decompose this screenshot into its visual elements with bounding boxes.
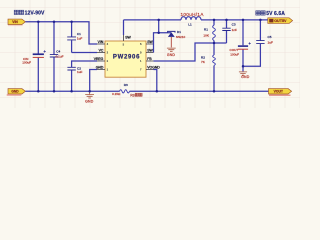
wire C4 column [53,22,55,92]
svg-text:100uH/1A: 100uH/1A [181,12,205,17]
resistor R2 7K [201,43,215,91]
svg-text:R3: R3 [130,93,134,97]
junction SW rail link bottom [157,31,160,34]
svg-text:VOUT: VOUT [274,90,284,94]
svg-text:C5: C5 [268,35,272,39]
svg-text:GND: GND [241,75,250,79]
wire top SW rail [124,19,268,21]
svg-text:VREG: VREG [94,57,104,61]
junction GND-CIN [37,90,40,93]
junction GND-VOGND [156,90,159,93]
svg-text:D1: D1 [177,30,181,34]
net label VOUT bottom [269,89,292,94]
capacitor C3 1nF [222,20,237,43]
svg-text:5V 6.6A: 5V 6.6A [266,11,285,17]
svg-text:SW: SW [147,49,153,53]
ground symbol D1 [167,48,176,51]
wire SW pins vertical [154,33,172,53]
svg-text:SW: SW [147,40,153,44]
pin names right [147,40,160,69]
resistor R3 0.15 ohm (inline) [112,83,130,96]
capacitor CIN 100uF [22,50,46,64]
junction FB divider [213,42,216,45]
svg-text:OUT5V: OUT5V [274,19,287,23]
svg-text:C3: C3 [232,23,236,27]
svg-text:0.1uF: 0.1uF [56,54,64,58]
svg-text:1uF: 1uF [77,70,82,74]
svg-text:C1: C1 [77,32,81,36]
svg-text:R3: R3 [124,83,128,87]
net label VIN [8,19,25,24]
svg-text:COUT: COUT [230,48,239,52]
ground symbol COUT [239,72,247,75]
svg-text:GND: GND [167,53,176,57]
svg-text:100uF: 100uF [22,61,31,65]
pin stubs left [97,44,105,70]
pin stub top [123,35,125,41]
junction SW rail link top [157,19,160,22]
wire top pin to rail [123,20,125,35]
junction GND-R2 [213,90,216,93]
junction VIN-C1 [70,21,73,24]
chip U1 PW2906 body [105,41,146,77]
capacitor C1 1uF [67,32,82,41]
svg-text:FB: FB [147,57,152,61]
svg-text:1uF: 1uF [77,36,82,40]
annotation input text 输入12V-90V [14,10,23,14]
inductor L1 100uH/1A [181,17,201,27]
junction VOUT-C3 [225,19,228,22]
annotation output text 输出5V 6.6A [256,11,265,15]
wire FB route [154,43,227,61]
svg-text:L1: L1 [188,22,192,26]
wire GND pin down [90,70,97,92]
ground symbol on rail [85,91,94,98]
svg-text:100uF: 100uF [230,53,239,57]
underline mark VIN tag [8,25,23,26]
svg-text:0.15Ω: 0.15Ω [112,92,121,96]
junction VOUT-R1 [213,19,216,22]
svg-text:1nF: 1nF [232,28,237,32]
svg-text:SS210: SS210 [176,35,186,39]
underline mark VOUT tag [269,95,291,97]
svg-text:VIN: VIN [98,40,104,44]
junction GND-pin [88,90,91,93]
diode D1 SS210 [168,30,186,48]
svg-text:10K: 10K [203,33,209,37]
svg-text:1uF: 1uF [268,41,273,45]
junction VIN-C4 [53,21,56,24]
junction VIN-CIN [37,21,40,24]
junction GND-C2 [70,90,73,93]
wire SW link to rail [158,20,160,33]
wire bottom GND rail [25,90,268,92]
svg-text:R1: R1 [204,28,208,32]
wire VC [72,52,97,54]
junction GND-C4 [53,90,56,93]
svg-text:C4: C4 [56,50,60,54]
capacitor C2 1uF [67,66,82,74]
pin names left [94,40,104,69]
svg-text:12V-90V: 12V-90V [25,11,45,17]
underline mark GND tag [7,94,22,96]
net label GND [8,89,25,94]
pin stubs right [146,44,154,70]
svg-text:PW2906: PW2906 [113,55,140,61]
svg-text:GND: GND [11,90,19,94]
svg-text:GND: GND [85,100,94,104]
svg-text:SW: SW [125,35,131,39]
wire VOGND [154,70,157,92]
capacitor COUT 100uF [230,20,251,72]
wire VREG to C2 [72,61,97,91]
net label VOUT5V top [268,18,293,24]
wire C1 column [71,22,73,53]
svg-text:GND: GND [96,66,104,70]
wire VIN rail [25,22,97,44]
pin numbers [107,42,109,71]
capacitor C5 1uF [243,20,273,66]
junction VOUT-C5 [259,19,262,22]
svg-text:VC: VC [99,49,104,53]
capacitor C4 0.1uF [50,50,64,59]
junction VOUT-COUT [242,19,245,22]
junction COUT-C5 [242,65,245,68]
resistor R1 10K [203,20,215,43]
svg-text:VIN: VIN [12,20,18,24]
wire CIN column [37,22,39,92]
